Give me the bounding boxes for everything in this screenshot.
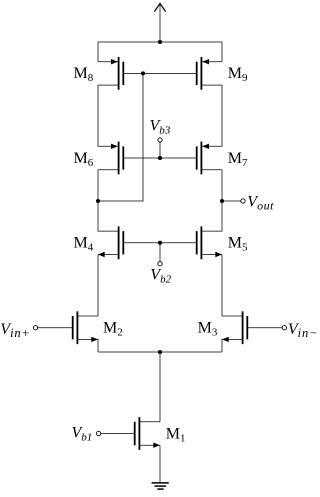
junction M8/M9 gate node <box>141 71 145 75</box>
wire M9 drain to M7 source <box>221 85 223 146</box>
terminal Vin- <box>282 326 286 330</box>
wire M2 source drop <box>97 339 99 352</box>
wire Vb1 to M1 gate <box>101 433 135 435</box>
transistor M2 <box>73 311 98 344</box>
wire tail rail <box>98 351 222 353</box>
wire M3 source drop <box>221 339 223 352</box>
terminal Vb1 <box>96 431 100 435</box>
junction tail node <box>158 350 162 354</box>
transistor M5 <box>197 226 222 259</box>
wire Vb2 stub <box>159 243 161 262</box>
transistor M8 <box>98 57 123 90</box>
wire M5 source to M3 drain <box>221 255 223 317</box>
wire rail to M9 source <box>221 42 223 62</box>
wire M6 drain to M4 drain <box>97 170 99 231</box>
ground <box>152 483 169 489</box>
wire M3 gate to Vin- <box>247 327 282 329</box>
transistor M4 <box>98 226 123 259</box>
wire rail to M8 source <box>97 42 99 62</box>
transistor M1 <box>135 417 160 450</box>
transistor M9 <box>197 57 222 90</box>
junction Vb3 tap <box>158 156 162 160</box>
junction Vout node <box>220 199 224 203</box>
wire M8 drain to M6 source <box>97 85 99 146</box>
wire M4 source to M2 drain <box>97 255 99 317</box>
wire Vb3 stub <box>159 142 161 158</box>
wire M8-M9 gate net <box>123 72 196 74</box>
wire Vout tap <box>222 200 241 202</box>
junction node X (M6 drain / bias) <box>96 199 100 203</box>
wire M1 source to ground <box>159 445 161 483</box>
terminal Vin+ <box>33 326 37 330</box>
wire Vin+ to M2 gate <box>38 327 73 329</box>
wire top supply rail <box>98 41 222 43</box>
wire gate-bias riser to node X <box>98 73 143 201</box>
transistor M6 <box>98 142 123 175</box>
terminal Vout <box>241 199 245 203</box>
wire M4-M5 gate net <box>123 242 196 244</box>
wire M7 drain to M5 drain <box>221 170 223 231</box>
power VDD arrow <box>154 3 165 42</box>
wire tail to M1 drain <box>159 352 161 422</box>
terminal Vb3 <box>158 138 162 142</box>
transistor M3 <box>222 311 247 344</box>
junction Vb2 tap <box>158 241 162 245</box>
wire M6-M7 gate net <box>123 157 196 159</box>
terminal Vb2 <box>158 262 162 266</box>
junction supply rail / VDD stem <box>158 40 162 44</box>
transistor M7 <box>197 142 222 175</box>
